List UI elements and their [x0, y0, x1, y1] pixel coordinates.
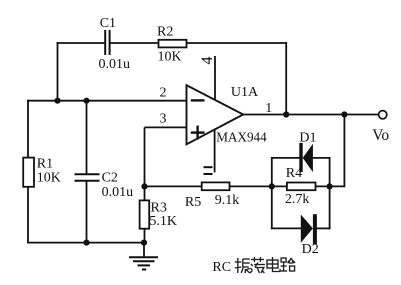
- svg-text:2: 2: [160, 86, 167, 101]
- svg-text:2.7k: 2.7k: [285, 192, 310, 207]
- svg-text:4: 4: [199, 57, 216, 65]
- svg-text:R2: R2: [157, 24, 173, 39]
- svg-text:RC: RC: [212, 260, 231, 275]
- svg-text:C2: C2: [102, 171, 118, 186]
- svg-text:10K: 10K: [158, 49, 182, 64]
- svg-text:D1: D1: [299, 131, 316, 146]
- svg-text:10K: 10K: [37, 171, 61, 186]
- svg-text:R1: R1: [37, 156, 53, 171]
- svg-text:U1A: U1A: [231, 85, 259, 100]
- svg-text:5.1K: 5.1K: [149, 214, 177, 229]
- svg-text:3: 3: [160, 112, 167, 127]
- svg-text:D2: D2: [302, 242, 319, 257]
- svg-text:1: 1: [265, 101, 272, 116]
- svg-text:C1: C1: [100, 16, 116, 31]
- svg-text:Vo: Vo: [372, 127, 389, 144]
- svg-text:9.1k: 9.1k: [215, 193, 240, 208]
- svg-text:0.01u: 0.01u: [99, 57, 131, 72]
- svg-text:0.01u: 0.01u: [102, 185, 134, 200]
- svg-text:R5: R5: [185, 195, 201, 210]
- svg-text:MAX944: MAX944: [216, 130, 267, 145]
- svg-text:R4: R4: [286, 166, 302, 181]
